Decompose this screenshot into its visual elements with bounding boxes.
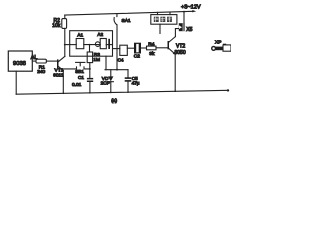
svg-text:9011: 9011 bbox=[53, 72, 64, 78]
svg-text:C1: C1 bbox=[78, 75, 84, 80]
label R2 10k bbox=[52, 18, 61, 29]
svg-text:47μ: 47μ bbox=[132, 81, 140, 86]
wire A2 second stub bbox=[113, 48, 120, 50]
switch SA bbox=[114, 14, 131, 25]
wire R3 vertical bbox=[89, 45, 91, 78]
transistor VT2 8050 bbox=[168, 37, 186, 57]
svg-text:+3~12V: +3~12V bbox=[181, 5, 201, 11]
wire R4 to VT2 base bbox=[156, 47, 168, 49]
svg-text:SB1: SB1 bbox=[75, 69, 84, 74]
svg-text:2CP: 2CP bbox=[101, 81, 110, 87]
wire 9038 to bus bbox=[15, 71, 17, 94]
A-box (module outline) bbox=[70, 31, 113, 57]
diode VD bbox=[101, 70, 114, 93]
resistor R2 bbox=[62, 19, 67, 29]
svg-text:C4: C4 bbox=[118, 57, 124, 62]
power terminal +3~12V bbox=[192, 10, 196, 12]
wire A-box ground pin bbox=[105, 56, 107, 69]
capacitor C4 bbox=[120, 45, 128, 55]
resistor R1 bbox=[36, 59, 46, 63]
svg-text:240: 240 bbox=[37, 69, 45, 75]
node bus end bbox=[227, 89, 229, 91]
wire radio stub bottom bbox=[159, 24, 161, 33]
pushbutton SB1 bbox=[75, 62, 85, 74]
capacitor C2 bbox=[134, 43, 141, 60]
jack X5 bbox=[179, 12, 193, 33]
wire A2 out bbox=[106, 44, 112, 46]
svg-text:0.01: 0.01 bbox=[72, 82, 82, 88]
wire radio stubs top bbox=[158, 12, 171, 15]
wire to A-box bbox=[65, 44, 76, 46]
node R3 tap bbox=[89, 44, 91, 46]
radio box text (CJK blobs) bbox=[154, 17, 172, 22]
transistor VT1 9011 bbox=[53, 56, 65, 78]
node collector-A1 junction bbox=[64, 44, 66, 46]
wire switch vertical bbox=[116, 25, 118, 70]
element A1 bbox=[76, 39, 84, 49]
svg-text:8050: 8050 bbox=[175, 50, 186, 56]
resistor R3 bbox=[87, 52, 92, 63]
wire C1 to bus bbox=[89, 82, 91, 93]
wire mid horizontal bbox=[105, 69, 128, 71]
element A2 plate bar bbox=[108, 39, 110, 49]
svg-text:3k: 3k bbox=[149, 51, 155, 57]
svg-text:1M: 1M bbox=[93, 57, 100, 63]
ground bus bbox=[16, 90, 228, 94]
wire A1 to A2 bbox=[84, 44, 100, 46]
svg-text:9038: 9038 bbox=[13, 61, 26, 67]
IC box 9038 bbox=[8, 51, 32, 71]
node bus junctions bbox=[63, 90, 177, 94]
plug XP bbox=[212, 40, 231, 52]
wire R1 to VT1 base bbox=[46, 60, 57, 62]
wire VT2 emitter down bbox=[174, 54, 176, 91]
wire VT1 emitter down bbox=[62, 71, 64, 94]
svg-text:10k: 10k bbox=[52, 23, 61, 29]
wire C4 to C2 bbox=[127, 47, 134, 49]
svg-text:A1: A1 bbox=[77, 33, 83, 38]
wire C2 to R4 bbox=[141, 47, 147, 49]
resistor R4 bbox=[147, 46, 157, 50]
wire emitter to SB1 bbox=[62, 67, 90, 69]
wire top rail bbox=[65, 11, 193, 15]
svg-text:VT2: VT2 bbox=[176, 44, 185, 50]
svg-text:XP: XP bbox=[215, 40, 221, 46]
svg-text:R4: R4 bbox=[148, 42, 154, 48]
capacitor C1 bbox=[72, 75, 93, 88]
wire 9038 output bbox=[32, 60, 36, 62]
svg-text:X5: X5 bbox=[186, 27, 192, 33]
element A2 circle bbox=[95, 42, 100, 47]
wire VT2 collector up bbox=[175, 29, 178, 37]
svg-text:SA1: SA1 bbox=[122, 18, 131, 24]
svg-text:A2: A2 bbox=[97, 32, 103, 37]
wire left vertical (R2 branch) bbox=[64, 15, 66, 57]
element A2 rect bbox=[100, 39, 106, 49]
capacitor C5 electrolytic bbox=[125, 70, 140, 93]
radio box bbox=[151, 15, 177, 25]
node SB1-C1 junction bbox=[89, 68, 91, 70]
svg-text:C2: C2 bbox=[134, 53, 140, 59]
svg-text:(a): (a) bbox=[111, 98, 117, 104]
